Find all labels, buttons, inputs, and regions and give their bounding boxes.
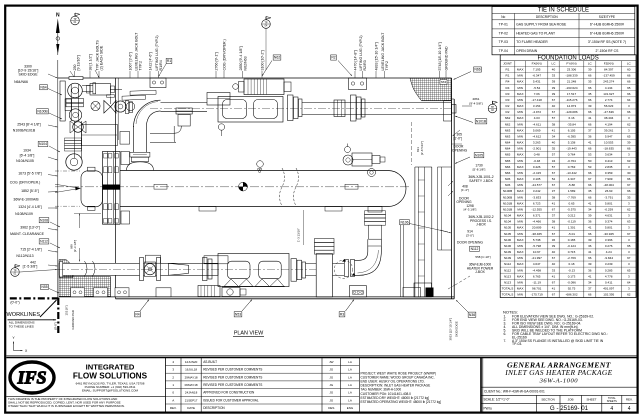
svg-text:1852 [5'-5"]: 1852 [5'-5"] — [21, 189, 39, 193]
svg-text:38.404: 38.404 — [604, 116, 614, 120]
svg-text:66: 66 — [588, 232, 592, 236]
svg-text:3: 3 — [628, 250, 630, 254]
svg-text:FY(KN): FY(KN) — [566, 62, 576, 66]
svg-text:40: 40 — [552, 141, 556, 145]
svg-text:-0.48: -0.48 — [533, 159, 540, 163]
svg-text:R1/R4: R1/R4 — [159, 60, 163, 70]
svg-text:MIN: MIN — [517, 86, 523, 90]
svg-text:N113: N113 — [504, 274, 511, 278]
svg-text:TO THESE LINES: TO THESE LINES — [9, 324, 34, 328]
svg-text:-5.01: -5.01 — [568, 232, 575, 236]
svg-text:0.374: 0.374 — [605, 220, 613, 224]
svg-text:MIN: MIN — [517, 207, 523, 211]
svg-text:-17.418: -17.418 — [532, 98, 543, 102]
svg-text:MAX: MAX — [517, 165, 524, 169]
nozzle circle on vessel — [368, 169, 376, 177]
svg-text:4.778: 4.778 — [605, 274, 613, 278]
svg-text:LA: LA — [348, 398, 352, 402]
svg-text:3: 3 — [628, 153, 630, 157]
svg-text:39: 39 — [588, 68, 592, 72]
svg-text:2.835: 2.835 — [605, 165, 613, 169]
svg-text:558 [1'-10"]: 558 [1'-10"] — [475, 255, 490, 259]
motor pump assembly — [244, 79, 284, 95]
label N101B — [475, 119, 487, 124]
svg-text:N106: N106 — [400, 220, 408, 224]
svg-text:DATE: DATE — [187, 406, 195, 410]
svg-text:1067 [3'-6"]: 1067 [3'-6"] — [128, 52, 132, 70]
small valve circle — [91, 101, 100, 110]
svg-text:-686.302: -686.302 — [565, 293, 577, 297]
svg-text:92.75: 92.75 — [568, 287, 576, 291]
svg-text:33: 33 — [552, 268, 556, 272]
main title block — [480, 358, 482, 412]
elbow up — [355, 246, 368, 260]
svg-text:3.263: 3.263 — [533, 141, 541, 145]
svg-text:-4.498: -4.498 — [532, 268, 541, 272]
svg-text:A 3" 150# SS FLANGE IS INSTALL: A 3" 150# SS FLANGE IS INSTALLED @ SKID … — [512, 339, 604, 343]
svg-text:DOOR OPENING: DOOR OPENING — [457, 240, 483, 244]
svg-text:3: 3 — [628, 287, 630, 291]
svg-text:MIN: MIN — [517, 110, 523, 114]
upper train: horizontal branch boxes — [90, 84, 111, 96]
svg-text:N36: N36 — [469, 313, 475, 317]
svg-text:1'-3 13/16": 1'-3 13/16" — [297, 228, 301, 242]
svg-text:66: 66 — [627, 80, 631, 84]
svg-text:66: 66 — [588, 98, 592, 102]
pump small bottom left — [198, 286, 220, 297]
svg-text:35: 35 — [588, 92, 592, 96]
vertical pipe to vessel flange — [130, 152, 150, 157]
svg-text:MAX: MAX — [517, 92, 524, 96]
svg-text:GAS SUPPLY FROM SEA ROSE: GAS SUPPLY FROM SEA ROSE — [516, 23, 567, 27]
svg-text:SAFETY J-BOX: SAFETY J-BOX — [469, 179, 493, 183]
label N105 — [474, 153, 484, 158]
svg-text:SKID EDGE: SKID EDGE — [455, 321, 459, 337]
svg-text:REV.: REV. — [170, 406, 177, 410]
coupling — [334, 100, 345, 117]
svg-text:40: 40 — [552, 262, 556, 266]
vertical duct — [316, 254, 332, 297]
svg-text:TP-03: TP-03 — [499, 40, 508, 44]
svg-text:66: 66 — [588, 110, 592, 114]
svg-text:3.239: 3.239 — [605, 262, 613, 266]
svg-text:JG: JG — [329, 375, 334, 379]
svg-text:MAX: MAX — [517, 141, 524, 145]
label N62 — [273, 55, 281, 60]
svg-text:R2: R2 — [506, 110, 510, 114]
svg-text:REV.: REV. — [626, 398, 633, 402]
svg-text:HEATED GAS TO PLANT: HEATED GAS TO PLANT — [516, 31, 555, 35]
svg-text:35: 35 — [588, 80, 592, 84]
svg-text:MIN: MIN — [517, 280, 523, 284]
svg-text:06MAY18: 06MAY18 — [185, 383, 198, 387]
svg-text:-21.997: -21.997 — [532, 256, 543, 260]
svg-text:PW.tu: PW.tu — [484, 406, 493, 410]
valve flanges — [345, 260, 349, 277]
svg-text:-3.833: -3.833 — [532, 195, 541, 199]
svg-text:N63: N63 — [505, 134, 511, 138]
svg-text:MAX: MAX — [517, 214, 524, 218]
svg-text:67: 67 — [552, 98, 556, 102]
svg-text:3923 [12'-10 1/4"]: 3923 [12'-10 1/4"] — [449, 318, 453, 341]
svg-text:39.261: 39.261 — [604, 128, 614, 132]
vertical pipe up to vessel — [367, 239, 369, 246]
svg-text:41: 41 — [552, 226, 556, 230]
svg-text:MAX: MAX — [517, 238, 524, 242]
svg-text:41: 41 — [588, 250, 592, 254]
svg-text:[2'-8 5/16"]: [2'-8 5/16"] — [420, 141, 424, 155]
svg-text:-11.19: -11.19 — [532, 280, 541, 284]
svg-text:TYP.2: TYP.2 — [385, 61, 389, 71]
svg-text:7.195: 7.195 — [533, 68, 541, 72]
svg-text:7.: 7. — [504, 339, 507, 343]
svg-text:66: 66 — [588, 122, 592, 126]
svg-text:DESCRIPTION: DESCRIPTION — [536, 15, 558, 19]
svg-text:LA: LA — [348, 360, 352, 364]
svg-text:10.553: 10.553 — [604, 141, 614, 145]
svg-text:G - 25169- 01: G - 25169- 01 — [550, 405, 589, 412]
svg-text:6.723: 6.723 — [533, 201, 541, 205]
svg-text:-0.13: -0.13 — [568, 268, 575, 272]
svg-text:AS-BUILT: AS-BUILT — [203, 360, 217, 364]
svg-text:MIN: MIN — [517, 268, 523, 272]
svg-text:66: 66 — [588, 147, 592, 151]
workline vertical — [57, 60, 59, 298]
svg-text:38 [1 1/2"]: 38 [1 1/2"] — [88, 54, 92, 70]
svg-text:30: 30 — [627, 171, 631, 175]
svg-text:5.738: 5.738 — [533, 238, 541, 242]
valve 1 with handwheel — [140, 258, 144, 281]
svg-text:-4.466: -4.466 — [532, 220, 541, 224]
svg-text:TYP.2: TYP.2 — [138, 61, 142, 71]
svg-text:TIE IN SCHEDULE: TIE IN SCHEDULE — [538, 8, 589, 14]
svg-text:N106: N106 — [504, 238, 512, 242]
svg-text:1934: 1934 — [23, 149, 31, 153]
svg-text:MAX: MAX — [517, 80, 524, 84]
saddle legs — [224, 279, 253, 287]
label N104 — [38, 141, 48, 146]
svg-text:[4'-3 1/8"]: [4'-3 1/8"] — [464, 208, 477, 212]
svg-text:R3: R3 — [506, 98, 510, 102]
svg-text:37: 37 — [552, 214, 556, 218]
svg-text:4: 4 — [628, 406, 631, 412]
label N112 — [39, 239, 49, 244]
label N108 — [39, 218, 49, 223]
svg-text:N64: N64 — [40, 85, 46, 89]
svg-text:N104: N104 — [504, 220, 512, 224]
svg-text:N63: N63 — [505, 128, 511, 132]
bottom outlet nozzle w flanges — [368, 207, 382, 213]
svg-text:N62/N63: N62/N63 — [243, 56, 247, 70]
svg-text:4: 4 — [610, 406, 613, 412]
svg-text:131.627: 131.627 — [603, 92, 614, 96]
svg-text:MIN: MIN — [517, 244, 523, 248]
svg-text:N36: N36 — [505, 177, 511, 181]
svg-text:50: 50 — [588, 159, 592, 163]
svg-text:2766 [9'-1"]: 2766 [9'-1"] — [214, 52, 218, 70]
svg-text:OPENING: OPENING — [452, 148, 468, 152]
svg-text:TP-02: TP-02 — [499, 31, 508, 35]
svg-text:N62: N62 — [274, 56, 280, 60]
pipe to right — [302, 102, 452, 104]
svg-text:N100B/N101B: N100B/N101B — [13, 129, 36, 133]
svg-text:3"-150# RF SS (NOTE 7): 3"-150# RF SS (NOTE 7) — [588, 40, 626, 44]
dim arrows right edge — [453, 130, 461, 136]
svg-text:84.397: 84.397 — [604, 68, 614, 72]
svg-text:N100B: N100B — [37, 110, 48, 114]
label N63 on pad — [440, 80, 447, 85]
horizontal cylinder — [207, 93, 230, 106]
svg-text:-4.611: -4.611 — [532, 122, 541, 126]
svg-text:-47.636: -47.636 — [604, 110, 615, 114]
svg-text:GROUND PAD: GROUND PAD — [444, 46, 448, 70]
svg-text:0.212: 0.212 — [568, 214, 576, 218]
second handwheel — [126, 102, 135, 111]
svg-text:-137.459: -137.459 — [603, 74, 615, 78]
svg-text:17.517: 17.517 — [567, 92, 577, 96]
svg-text:PLAN VIEW: PLAN VIEW — [234, 331, 264, 337]
upper train: left cluster vertical pipe — [70, 84, 72, 121]
horizontal pipe from elbow — [82, 84, 93, 86]
svg-text:N109: N109 — [504, 256, 512, 260]
svg-text:[1'-4"]: [1'-4"] — [461, 188, 469, 192]
svg-text:N66: N66 — [505, 171, 511, 175]
psv assembly on vessel top — [352, 153, 372, 166]
svg-text:-18.635: -18.635 — [604, 147, 615, 151]
workline horizontal thick dash-dot — [10, 297, 59, 299]
svg-text:243.274: 243.274 — [603, 80, 614, 84]
svg-text:67: 67 — [552, 280, 556, 284]
svg-text:-0.096: -0.096 — [567, 280, 576, 284]
svg-text:J-BOX: J-BOX — [476, 223, 487, 227]
svg-text:63: 63 — [627, 220, 631, 224]
svg-text:SHEET: SHEET — [586, 398, 596, 402]
svg-text:N104: N104 — [39, 142, 47, 146]
svg-text:MAX: MAX — [517, 189, 524, 193]
svg-text:41: 41 — [552, 287, 556, 291]
svg-text:21SEP17: 21SEP17 — [185, 398, 198, 402]
elbow circle bottom — [69, 109, 81, 121]
svg-text:-38.465: -38.465 — [532, 232, 543, 236]
svg-text:4.03: 4.03 — [534, 116, 540, 120]
svg-text:5.431: 5.431 — [533, 80, 541, 84]
svg-text:MIN: MIN — [517, 220, 523, 224]
flow arrows — [342, 259, 346, 262]
svg-text:[6'-4 1/8"]: [6'-4 1/8"] — [20, 154, 35, 158]
box on pipe top — [204, 256, 228, 264]
svg-text:53: 53 — [588, 165, 592, 169]
svg-text:DES: DES — [328, 406, 334, 410]
svg-text:715 [2'-4 1/8"]: 715 [2'-4 1/8"] — [20, 248, 42, 252]
lifting lug left R1 — [150, 78, 166, 88]
svg-text:N65: N65 — [505, 159, 511, 163]
shell break lines — [280, 168, 285, 206]
svg-text:LA: LA — [348, 383, 352, 387]
svg-text:2"-150# RF CS: 2"-150# RF CS — [595, 49, 619, 53]
svg-text:[2'-3 1/8"]: [2'-3 1/8"] — [73, 240, 77, 252]
svg-text:R4: R4 — [135, 313, 139, 317]
svg-text:-0.764: -0.764 — [567, 159, 576, 163]
svg-text:35: 35 — [627, 195, 631, 199]
gate valve bowtie — [104, 101, 111, 114]
svg-text:-5.88: -5.88 — [568, 183, 575, 187]
svg-text:N66: N66 — [474, 68, 480, 72]
centerline upper pipe — [150, 108, 451, 110]
svg-text:24JAN18: 24JAN18 — [185, 391, 198, 395]
svg-text:66: 66 — [627, 74, 631, 78]
svg-text:N101B: N101B — [503, 207, 512, 211]
vessel right head — [388, 171, 406, 207]
svg-text:3: 3 — [628, 226, 630, 230]
svg-text:SKID EDGE: SKID EDGE — [18, 73, 38, 77]
svg-text:MAX: MAX — [517, 262, 524, 266]
svg-text:ENG: ENG — [347, 406, 354, 410]
pipe stub TP-02 — [444, 101, 452, 122]
svg-text:WORKLINES: WORKLINES — [7, 312, 41, 318]
svg-text:3.154: 3.154 — [533, 104, 541, 108]
svg-text:DESCRIPTION: DESCRIPTION — [203, 406, 225, 410]
svg-text:65: 65 — [627, 268, 631, 272]
svg-text:MIN: MIN — [517, 232, 523, 236]
svg-text:MAINT. CLEARANCE: MAINT. CLEARANCE — [10, 232, 45, 236]
svg-text:3.105: 3.105 — [533, 177, 541, 181]
flange stack 2 — [351, 95, 357, 121]
tray bottom boxes — [403, 288, 421, 297]
svg-text:6.: 6. — [504, 332, 507, 336]
svg-text:0.18: 0.18 — [569, 262, 575, 266]
svg-text:3: 3 — [628, 116, 630, 120]
centerline lower pipe — [57, 268, 316, 270]
pipe to duct — [306, 262, 317, 264]
svg-text:7.06: 7.06 — [534, 92, 540, 96]
ribbed flange stack — [65, 138, 82, 141]
svg-text:ESTIMATED OPERATING WEIGHT:: ESTIMATED OPERATING WEIGHT: 48000 lb [21… — [361, 400, 442, 404]
svg-text:[1'-5 3/8"]: [1'-5 3/8"] — [23, 265, 38, 269]
svg-text:SIZE/TYPE: SIZE/TYPE — [599, 15, 615, 19]
svg-text:29MAY18: 29MAY18 — [185, 375, 198, 379]
svg-text:N55: N55 — [41, 285, 47, 289]
svg-text:N100B: N100B — [503, 195, 512, 199]
svg-text:-5.54: -5.54 — [533, 86, 540, 90]
label N66 — [474, 67, 482, 72]
svg-text:4470 [14'-8"]: 4470 [14'-8"] — [353, 50, 357, 70]
svg-text:FLOW SOLUTIONS: FLOW SOLUTIONS — [73, 372, 148, 381]
svg-text:N101B: N101B — [503, 201, 512, 205]
svg-text:N112: N112 — [504, 268, 511, 272]
svg-text:MIN: MIN — [517, 256, 523, 260]
svg-text:6.371: 6.371 — [533, 214, 541, 218]
svg-text:5.069: 5.069 — [533, 128, 541, 132]
svg-text:-35.84: -35.84 — [567, 122, 576, 126]
svg-text:57: 57 — [552, 116, 556, 120]
svg-text:TP-04: TP-04 — [499, 49, 508, 53]
svg-text:FZ(KN): FZ(KN) — [604, 62, 614, 66]
svg-text:J-BOX: J-BOX — [475, 270, 486, 274]
elbow circle top — [68, 83, 83, 98]
svg-text:N106: N106 — [504, 244, 512, 248]
tp flag top left — [71, 16, 80, 25]
svg-text:TO FLARE HEADER: TO FLARE HEADER — [516, 40, 548, 44]
svg-text:57: 57 — [552, 153, 556, 157]
pipe break S — [85, 261, 96, 277]
svg-text:N66: N66 — [505, 165, 511, 169]
svg-text:-2.901: -2.901 — [532, 147, 541, 151]
svg-text:66: 66 — [627, 110, 631, 114]
svg-text:OPEN DRAIN: OPEN DRAIN — [516, 49, 538, 53]
svg-text:MAX: MAX — [517, 274, 524, 278]
svg-text:0.65: 0.65 — [569, 201, 575, 205]
svg-text:6.765: 6.765 — [533, 274, 541, 278]
svg-text:N108/N109: N108/N109 — [15, 212, 33, 216]
svg-text:39: 39 — [588, 238, 592, 242]
svg-text:MIN: MIN — [517, 74, 523, 78]
svg-text:REVISED PER CUSTOMER COMMEN: REVISED PER CUSTOMER COMMENTS — [203, 375, 262, 379]
svg-text:0.285: 0.285 — [605, 268, 613, 272]
svg-text:26.63: 26.63 — [605, 189, 613, 193]
svg-text:APPROVED FOR CONSTRUCTION: APPROVED FOR CONSTRUCTION — [203, 391, 255, 395]
svg-text:38: 38 — [552, 195, 556, 199]
svg-text:COG (DRY/OPER.): COG (DRY/OPER.) — [222, 39, 226, 70]
svg-text:5748 [18'-10 1/4"]: 5748 [18'-10 1/4"] — [438, 42, 442, 70]
svg-text:37: 37 — [588, 128, 592, 132]
svg-text:R4: R4 — [506, 86, 510, 90]
svg-text:INTEGRATED: INTEGRATED — [86, 363, 135, 372]
svg-text:-0.119: -0.119 — [567, 220, 576, 224]
svg-text:39: 39 — [552, 80, 556, 84]
label R4 — [135, 312, 141, 317]
svg-text:40: 40 — [552, 104, 556, 108]
svg-text:67: 67 — [627, 232, 631, 236]
svg-text:66: 66 — [588, 256, 592, 260]
flange stack mid — [288, 95, 294, 121]
svg-text:[3'-0"]: [3'-0"] — [466, 233, 474, 237]
svg-text:-2.709: -2.709 — [567, 256, 576, 260]
svg-text:4833 [15'-10 1/4"]: 4833 [15'-10 1/4"] — [374, 42, 378, 70]
svg-text:39: 39 — [552, 92, 556, 96]
svg-text:No: No — [501, 15, 505, 19]
angled bars top — [122, 95, 146, 100]
svg-text:34: 34 — [552, 159, 556, 163]
head leader arrow — [55, 184, 78, 188]
svg-text:66: 66 — [588, 74, 592, 78]
shell tabs — [154, 184, 167, 189]
svg-text:37: 37 — [588, 287, 592, 291]
svg-text:[1'-0"]: [1'-0"] — [454, 137, 462, 141]
svg-text:0.411: 0.411 — [605, 280, 613, 284]
svg-text:MIN: MIN — [517, 122, 523, 126]
svg-text:-0.124: -0.124 — [567, 244, 576, 248]
svg-text:39: 39 — [627, 141, 631, 145]
svg-text:4.647: 4.647 — [533, 262, 541, 266]
cap bar on skid edge — [69, 77, 83, 80]
svg-text:67: 67 — [552, 183, 556, 187]
svg-text:JG: JG — [329, 398, 334, 402]
svg-text:36W-E-1000A/B: 36W-E-1000A/B — [13, 198, 39, 202]
svg-text:R1: R1 — [506, 68, 510, 72]
svg-text:4.24: 4.24 — [606, 250, 612, 254]
lower train pipe left — [59, 263, 218, 275]
svg-text:MIN: MIN — [517, 183, 523, 187]
svg-text:1.589: 1.589 — [568, 189, 576, 193]
svg-text:36: 36 — [588, 244, 592, 248]
svg-text:N100B: N100B — [503, 189, 512, 193]
svg-text:21.248: 21.248 — [567, 80, 577, 84]
svg-text:38: 38 — [552, 220, 556, 224]
upper train: left tall plate — [60, 81, 65, 121]
svg-text:N101B: N101B — [476, 120, 487, 124]
svg-text:36: 36 — [588, 268, 592, 272]
svg-text:16JUL18: 16JUL18 — [185, 368, 197, 372]
